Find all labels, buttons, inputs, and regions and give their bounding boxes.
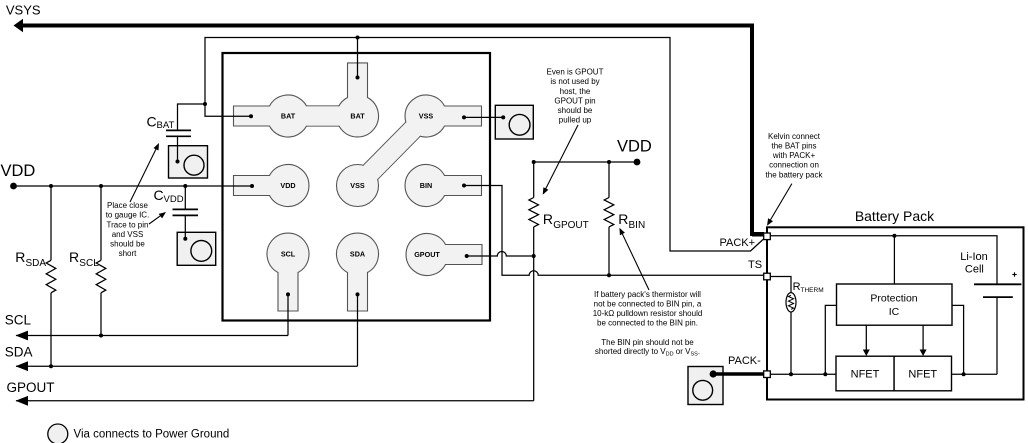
- svg-text:Li-Ion: Li-Ion: [960, 251, 988, 263]
- svg-text:Kelvin connect: Kelvin connect: [768, 132, 821, 141]
- svg-text:VDD: VDD: [1, 162, 36, 180]
- svg-text:If battery pack's thermistor w: If battery pack's thermistor will: [594, 290, 701, 299]
- svg-text:short: short: [119, 249, 138, 258]
- svg-text:VSS: VSS: [350, 181, 365, 190]
- svg-text:VDD: VDD: [164, 194, 184, 205]
- svg-text:SDA: SDA: [350, 250, 365, 259]
- svg-text:should be: should be: [558, 106, 593, 115]
- svg-text:TS: TS: [748, 259, 762, 271]
- svg-text:SDA: SDA: [5, 344, 33, 359]
- svg-text:Via connects to Power Ground: Via connects to Power Ground: [74, 429, 230, 441]
- svg-text:C: C: [154, 187, 164, 203]
- svg-text:10-kΩ pulldown resistor should: 10-kΩ pulldown resistor should: [593, 309, 703, 318]
- svg-text:host, the: host, the: [560, 87, 591, 96]
- svg-text:IC: IC: [889, 306, 900, 318]
- svg-text:to gauge IC.: to gauge IC.: [106, 211, 150, 220]
- svg-text:GPOUT pin: GPOUT pin: [554, 96, 595, 105]
- svg-text:BAT: BAT: [281, 112, 296, 121]
- svg-text:the BAT pins: the BAT pins: [771, 141, 816, 150]
- svg-text:shorted directly to VDD or VSS: shorted directly to VDD or VSS.: [595, 347, 700, 358]
- svg-text:not be connected to BIN pin, a: not be connected to BIN pin, a: [594, 299, 702, 308]
- svg-text:Place close: Place close: [107, 201, 148, 210]
- svg-text:Trace to pin: Trace to pin: [107, 220, 149, 229]
- svg-text:Battery Pack: Battery Pack: [855, 208, 935, 224]
- svg-text:BIN: BIN: [420, 181, 432, 190]
- svg-text:be connected to the BIN pin.: be connected to the BIN pin.: [597, 319, 698, 328]
- svg-text:C: C: [147, 114, 157, 130]
- svg-text:Even is GPOUT: Even is GPOUT: [547, 68, 604, 77]
- svg-text:is not used by: is not used by: [550, 77, 599, 86]
- svg-text:connection on: connection on: [769, 161, 819, 170]
- svg-text:VSS: VSS: [419, 112, 434, 121]
- svg-text:R: R: [618, 211, 628, 227]
- svg-text:VDD: VDD: [280, 181, 295, 190]
- svg-text:PACK+: PACK+: [720, 237, 756, 249]
- svg-text:BIN: BIN: [629, 220, 646, 231]
- svg-text:should be: should be: [110, 240, 145, 249]
- svg-text:GPOUT: GPOUT: [553, 220, 589, 231]
- svg-text:R: R: [15, 249, 25, 265]
- svg-text:GPOUT: GPOUT: [7, 380, 55, 395]
- svg-text:Protection: Protection: [870, 292, 917, 304]
- svg-text:VDD: VDD: [617, 138, 652, 156]
- svg-text:The BIN pin should not be: The BIN pin should not be: [601, 338, 694, 347]
- svg-text:PACK-: PACK-: [728, 355, 761, 367]
- svg-text:THERM: THERM: [801, 287, 824, 294]
- svg-text:with PACK+: with PACK+: [772, 151, 816, 160]
- svg-text:SDA: SDA: [26, 258, 47, 269]
- svg-text:Cell: Cell: [965, 263, 984, 275]
- svg-text:BAT: BAT: [350, 112, 365, 121]
- svg-text:pulled up: pulled up: [559, 116, 592, 125]
- svg-text:SCL: SCL: [5, 312, 32, 327]
- svg-text:NFET: NFET: [908, 369, 937, 381]
- svg-text:SCL: SCL: [79, 258, 99, 269]
- svg-text:GPOUT: GPOUT: [414, 250, 440, 259]
- svg-text:VSYS: VSYS: [6, 3, 41, 18]
- svg-text:R: R: [69, 249, 79, 265]
- svg-text:R: R: [793, 281, 801, 293]
- svg-text:the battery pack: the battery pack: [766, 170, 824, 179]
- svg-text:SCL: SCL: [281, 250, 296, 259]
- svg-text:BAT: BAT: [157, 120, 175, 131]
- svg-text:NFET: NFET: [851, 369, 880, 381]
- svg-text:R: R: [543, 211, 553, 227]
- svg-text:and VSS: and VSS: [112, 230, 144, 239]
